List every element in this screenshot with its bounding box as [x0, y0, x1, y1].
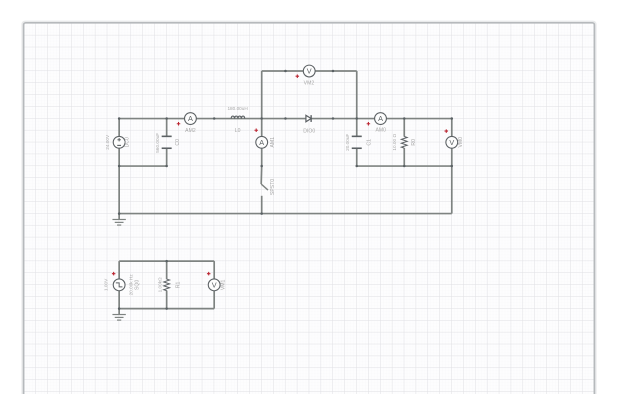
svg-text:1.00V: 1.00V	[104, 278, 109, 291]
svg-text:L0: L0	[235, 128, 241, 134]
svg-text:R1: R1	[176, 281, 182, 288]
svg-text:V: V	[307, 67, 312, 76]
svg-text:AM0: AM0	[375, 127, 386, 133]
svg-text:AM2: AM2	[185, 128, 196, 134]
svg-text:VM2: VM2	[304, 81, 315, 87]
svg-text:C1: C1	[367, 139, 373, 146]
svg-text:V: V	[212, 281, 217, 290]
svg-text:A: A	[259, 138, 264, 147]
svg-text:A: A	[188, 114, 193, 123]
svg-text:DC0: DC0	[125, 137, 131, 147]
svg-text:R0: R0	[411, 139, 417, 146]
svg-text:SQ0: SQ0	[135, 280, 141, 290]
svg-text:DIO0: DIO0	[303, 128, 315, 134]
svg-text:24.00V: 24.00V	[105, 134, 110, 150]
svg-text:180.00uH: 180.00uH	[227, 106, 247, 111]
svg-text:20.00k Hz: 20.00k Hz	[129, 274, 134, 296]
svg-text:VM1: VM1	[221, 279, 227, 290]
svg-text:C0: C0	[175, 139, 181, 146]
svg-text:VM0: VM0	[458, 137, 464, 148]
svg-text:1.00kΩ: 1.00kΩ	[158, 277, 163, 292]
svg-text:560.00uF: 560.00uF	[155, 133, 160, 153]
svg-text:20.00uF: 20.00uF	[345, 134, 350, 151]
svg-text:V: V	[449, 138, 454, 147]
svg-text:AM1: AM1	[270, 137, 276, 148]
svg-text:A: A	[378, 114, 383, 123]
svg-text:SPST0: SPST0	[270, 179, 276, 195]
svg-text:10.00 Ω: 10.00 Ω	[392, 134, 397, 151]
